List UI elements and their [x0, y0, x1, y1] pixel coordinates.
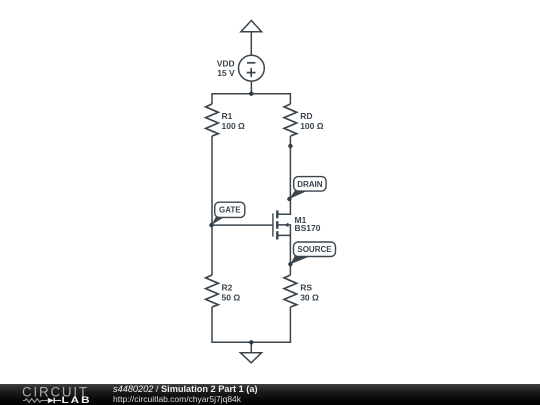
svg-text:SOURCE: SOURCE: [297, 245, 332, 254]
svg-text:100 Ω: 100 Ω: [222, 121, 246, 131]
svg-text:R1: R1: [222, 111, 233, 121]
svg-text:RS: RS: [300, 283, 312, 293]
svg-text:R2: R2: [222, 283, 233, 293]
svg-text:BS170: BS170: [295, 223, 321, 233]
svg-text:100 Ω: 100 Ω: [300, 121, 324, 131]
svg-text:RD: RD: [300, 111, 312, 121]
svg-text:LAB: LAB: [62, 396, 92, 405]
svg-text:DRAIN: DRAIN: [297, 180, 323, 189]
svg-text:GATE: GATE: [219, 206, 241, 215]
svg-text:30 Ω: 30 Ω: [300, 292, 319, 302]
svg-text:15 V: 15 V: [217, 68, 235, 78]
svg-text:50 Ω: 50 Ω: [222, 292, 241, 302]
